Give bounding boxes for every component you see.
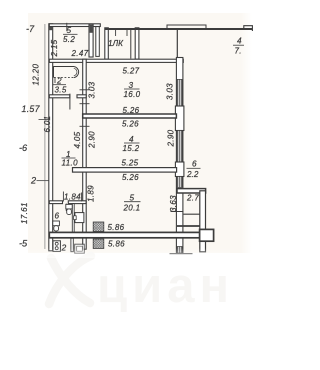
svg-text:4: 4 <box>129 135 134 144</box>
W7 wide white block 1 <box>175 106 184 131</box>
wire: tick above room5 <box>66 23 68 31</box>
wire: dim tick y180.6 <box>37 180 53 182</box>
wall: left exterior W1 <box>49 24 53 251</box>
svg-text:2.7: 2.7 <box>186 193 199 202</box>
svg-text:2.2: 2.2 <box>186 170 199 179</box>
door leaf bath <box>69 94 71 110</box>
svg-text:16.0: 16.0 <box>124 90 141 99</box>
svg-text:5.25: 5.25 <box>122 159 139 168</box>
wall: rooms left W6 <box>83 59 87 249</box>
wall: 1LK right W5 <box>135 28 139 59</box>
svg-text:циан: циан <box>97 259 234 313</box>
wall: top exterior H2 <box>105 28 253 30</box>
bay window outline <box>167 25 206 29</box>
wire: tick x127 <box>126 30 128 37</box>
svg-text:15.2: 15.2 <box>123 144 140 153</box>
wire: W6 tick y103.7 <box>80 103 90 105</box>
toilet 1 <box>66 204 72 209</box>
door leaf wc <box>65 204 67 211</box>
sink 2 <box>75 244 85 253</box>
bathtub <box>54 67 79 78</box>
wall: bottom double H8 <box>49 232 201 237</box>
wall: room4/5 divider H5 <box>73 168 177 173</box>
W7 hatch foot <box>177 247 182 254</box>
svg-text:2: 2 <box>56 77 62 86</box>
svg-text:6: 6 <box>55 212 60 221</box>
W7 wide white block 2 <box>175 162 184 177</box>
svg-text:3.03: 3.03 <box>88 81 97 98</box>
wall end cap <box>244 26 253 31</box>
paper background <box>28 13 241 253</box>
wire: inner line H10 <box>183 213 199 215</box>
wall: room3/4 divider H4 <box>83 114 177 118</box>
wall: 1LK left W4 <box>105 28 109 59</box>
svg-text:-7: -7 <box>26 24 35 34</box>
wall: rooms top H3 <box>49 59 183 62</box>
wall: right vertical W8 <box>200 191 206 252</box>
wire: dim tick y119.5 <box>39 119 53 121</box>
stove <box>53 241 60 252</box>
svg-text:1.57: 1.57 <box>22 104 41 114</box>
svg-text:5.86: 5.86 <box>108 240 125 249</box>
svg-text:5.26: 5.26 <box>122 120 139 129</box>
svg-text:2.15: 2.15 <box>50 39 59 57</box>
svg-text:5: 5 <box>67 26 72 35</box>
wire: left dimension line <box>44 24 46 249</box>
stair strip line in 1LK <box>130 30 132 59</box>
wall: wc partition W9 <box>72 204 74 233</box>
svg-text:4: 4 <box>237 37 242 46</box>
svg-text:3: 3 <box>129 81 134 90</box>
main drawing <box>19 23 253 254</box>
watermark logo mark <box>49 256 91 304</box>
svg-text:1.84: 1.84 <box>64 193 81 202</box>
svg-text:5.2: 5.2 <box>63 35 75 44</box>
wall: top-left H1 <box>49 24 100 27</box>
door leaf D1 <box>96 27 100 57</box>
vent block VB1 <box>93 222 104 232</box>
wire: W7 tick y211.5 <box>171 211 184 213</box>
svg-text:5.26: 5.26 <box>122 173 139 182</box>
wall: bath bottom H6 <box>49 95 70 98</box>
wire: W6 tick y89.8 <box>80 89 90 91</box>
svg-text:4.05: 4.05 <box>73 131 82 148</box>
bath room label <box>54 77 56 83</box>
svg-text:3.5: 3.5 <box>55 86 67 95</box>
box B1 <box>200 229 214 241</box>
svg-text:17.61: 17.61 <box>20 202 29 224</box>
svg-text:3.03: 3.03 <box>166 83 175 100</box>
sink 1 <box>75 213 84 223</box>
wire: vertical connector x177.3 <box>176 30 178 59</box>
wall: balcony bottom H9 <box>177 189 206 193</box>
svg-text:2.47: 2.47 <box>71 49 89 58</box>
W7 hatch segment 3 <box>177 177 182 188</box>
svg-text:6: 6 <box>192 160 197 169</box>
wall: rooms right W7 <box>176 58 183 254</box>
svg-text:-6: -6 <box>19 143 28 153</box>
wire: W6 tick y126.3 <box>80 125 90 127</box>
svg-text:3.63: 3.63 <box>169 195 178 212</box>
svg-text:5.27: 5.27 <box>123 67 140 76</box>
toilet 2 <box>53 221 60 226</box>
svg-text:12.20: 12.20 <box>32 64 41 86</box>
wall: wc top H7 <box>49 201 62 204</box>
svg-text:2.90: 2.90 <box>88 131 97 149</box>
parapet line P1 <box>177 225 202 227</box>
wire: tick x115.6 <box>115 30 117 37</box>
svg-text:2.90: 2.90 <box>167 129 176 147</box>
dim ticks 1.84 <box>62 192 64 202</box>
svg-text:1ЛК: 1ЛК <box>108 39 124 48</box>
W7 hatch segment 1 <box>177 79 182 106</box>
svg-text:11.0: 11.0 <box>62 158 79 167</box>
svg-text:7.: 7. <box>235 46 242 55</box>
bottom fade of plan <box>28 248 230 258</box>
vent block VB2 <box>93 239 104 249</box>
svg-text:5.26: 5.26 <box>123 106 140 115</box>
svg-text:5.86: 5.86 <box>108 223 125 232</box>
W7 foot bar <box>170 253 193 255</box>
wall: room5 right W3 <box>89 24 93 57</box>
svg-text:20.1: 20.1 <box>123 204 141 213</box>
svg-text:2: 2 <box>30 176 36 186</box>
W7 hatch segment 2 <box>177 131 182 163</box>
svg-text:1.89: 1.89 <box>87 185 96 202</box>
svg-text:6.01: 6.01 <box>43 116 52 133</box>
wall: kitchen partition W10 <box>71 238 73 252</box>
svg-text:5: 5 <box>130 194 135 203</box>
svg-text:-5: -5 <box>19 238 28 248</box>
